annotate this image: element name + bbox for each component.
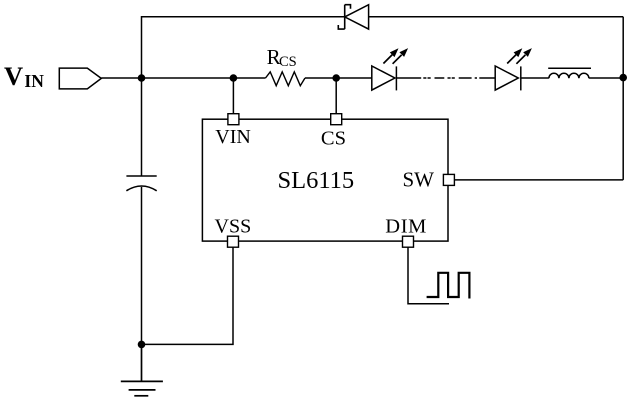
ground: [121, 344, 163, 395]
node main VIN junction: [138, 74, 146, 82]
RCS value label: [267, 45, 297, 70]
wire VIN pin stub: [232, 78, 234, 114]
wire CS pin stub: [335, 78, 337, 114]
pin CS square: [331, 114, 342, 125]
pin VSS square: [228, 236, 239, 247]
wire VSS to ground node: [142, 247, 234, 344]
svg-text:IN: IN: [24, 71, 44, 91]
diode D1 (Schottky): [338, 5, 368, 29]
node VIN pin junction: [230, 74, 238, 82]
wire dashed segment to LED D3: [479, 77, 495, 79]
svg-text:DIM: DIM: [385, 216, 427, 238]
PWM dimming waveform: [427, 273, 470, 299]
resistor RCS: [266, 72, 306, 86]
svg-text:V: V: [4, 61, 23, 91]
wire dash-dot (more LEDs): [423, 77, 477, 79]
capacitor C1: [126, 176, 156, 191]
svg-text:VSS: VSS: [215, 216, 252, 238]
wire main horizontal rail: [142, 77, 372, 79]
LED D2 emission arrows: [383, 48, 408, 64]
svg-text:SL6115: SL6115: [278, 167, 355, 194]
inductor L1: [548, 68, 591, 78]
LED D2: [372, 66, 397, 90]
svg-text:CS: CS: [279, 54, 297, 70]
node inductor/right rail junction: [619, 74, 627, 82]
svg-text:VIN: VIN: [215, 126, 251, 148]
VIN input tag: [59, 68, 101, 89]
wire SW to right rail: [455, 179, 624, 181]
VIN net label text: [4, 61, 44, 91]
wire DIM stub: [408, 247, 449, 304]
wire VIN tag to main node: [101, 77, 141, 79]
wire LED D3 to inductor: [521, 77, 549, 79]
pin DIM square: [403, 236, 414, 247]
wire left vertical (node to cap, cap to gnd): [141, 78, 143, 344]
svg-text:CS: CS: [321, 128, 346, 150]
node CS junction: [332, 74, 340, 82]
node ground junction: [138, 341, 146, 349]
LED D3 emission arrows: [507, 48, 532, 64]
pin VIN square: [228, 114, 239, 125]
wire top rail: [142, 17, 624, 78]
svg-text:SW: SW: [403, 167, 435, 191]
wire LED D2 to dashed segment: [396, 77, 421, 79]
pin SW square: [443, 174, 454, 185]
op-amp U1 SL6115 body: [202, 119, 448, 241]
LED D3: [495, 66, 521, 90]
wire inductor to right rail: [589, 77, 623, 79]
wire right vertical rail: [622, 17, 624, 180]
